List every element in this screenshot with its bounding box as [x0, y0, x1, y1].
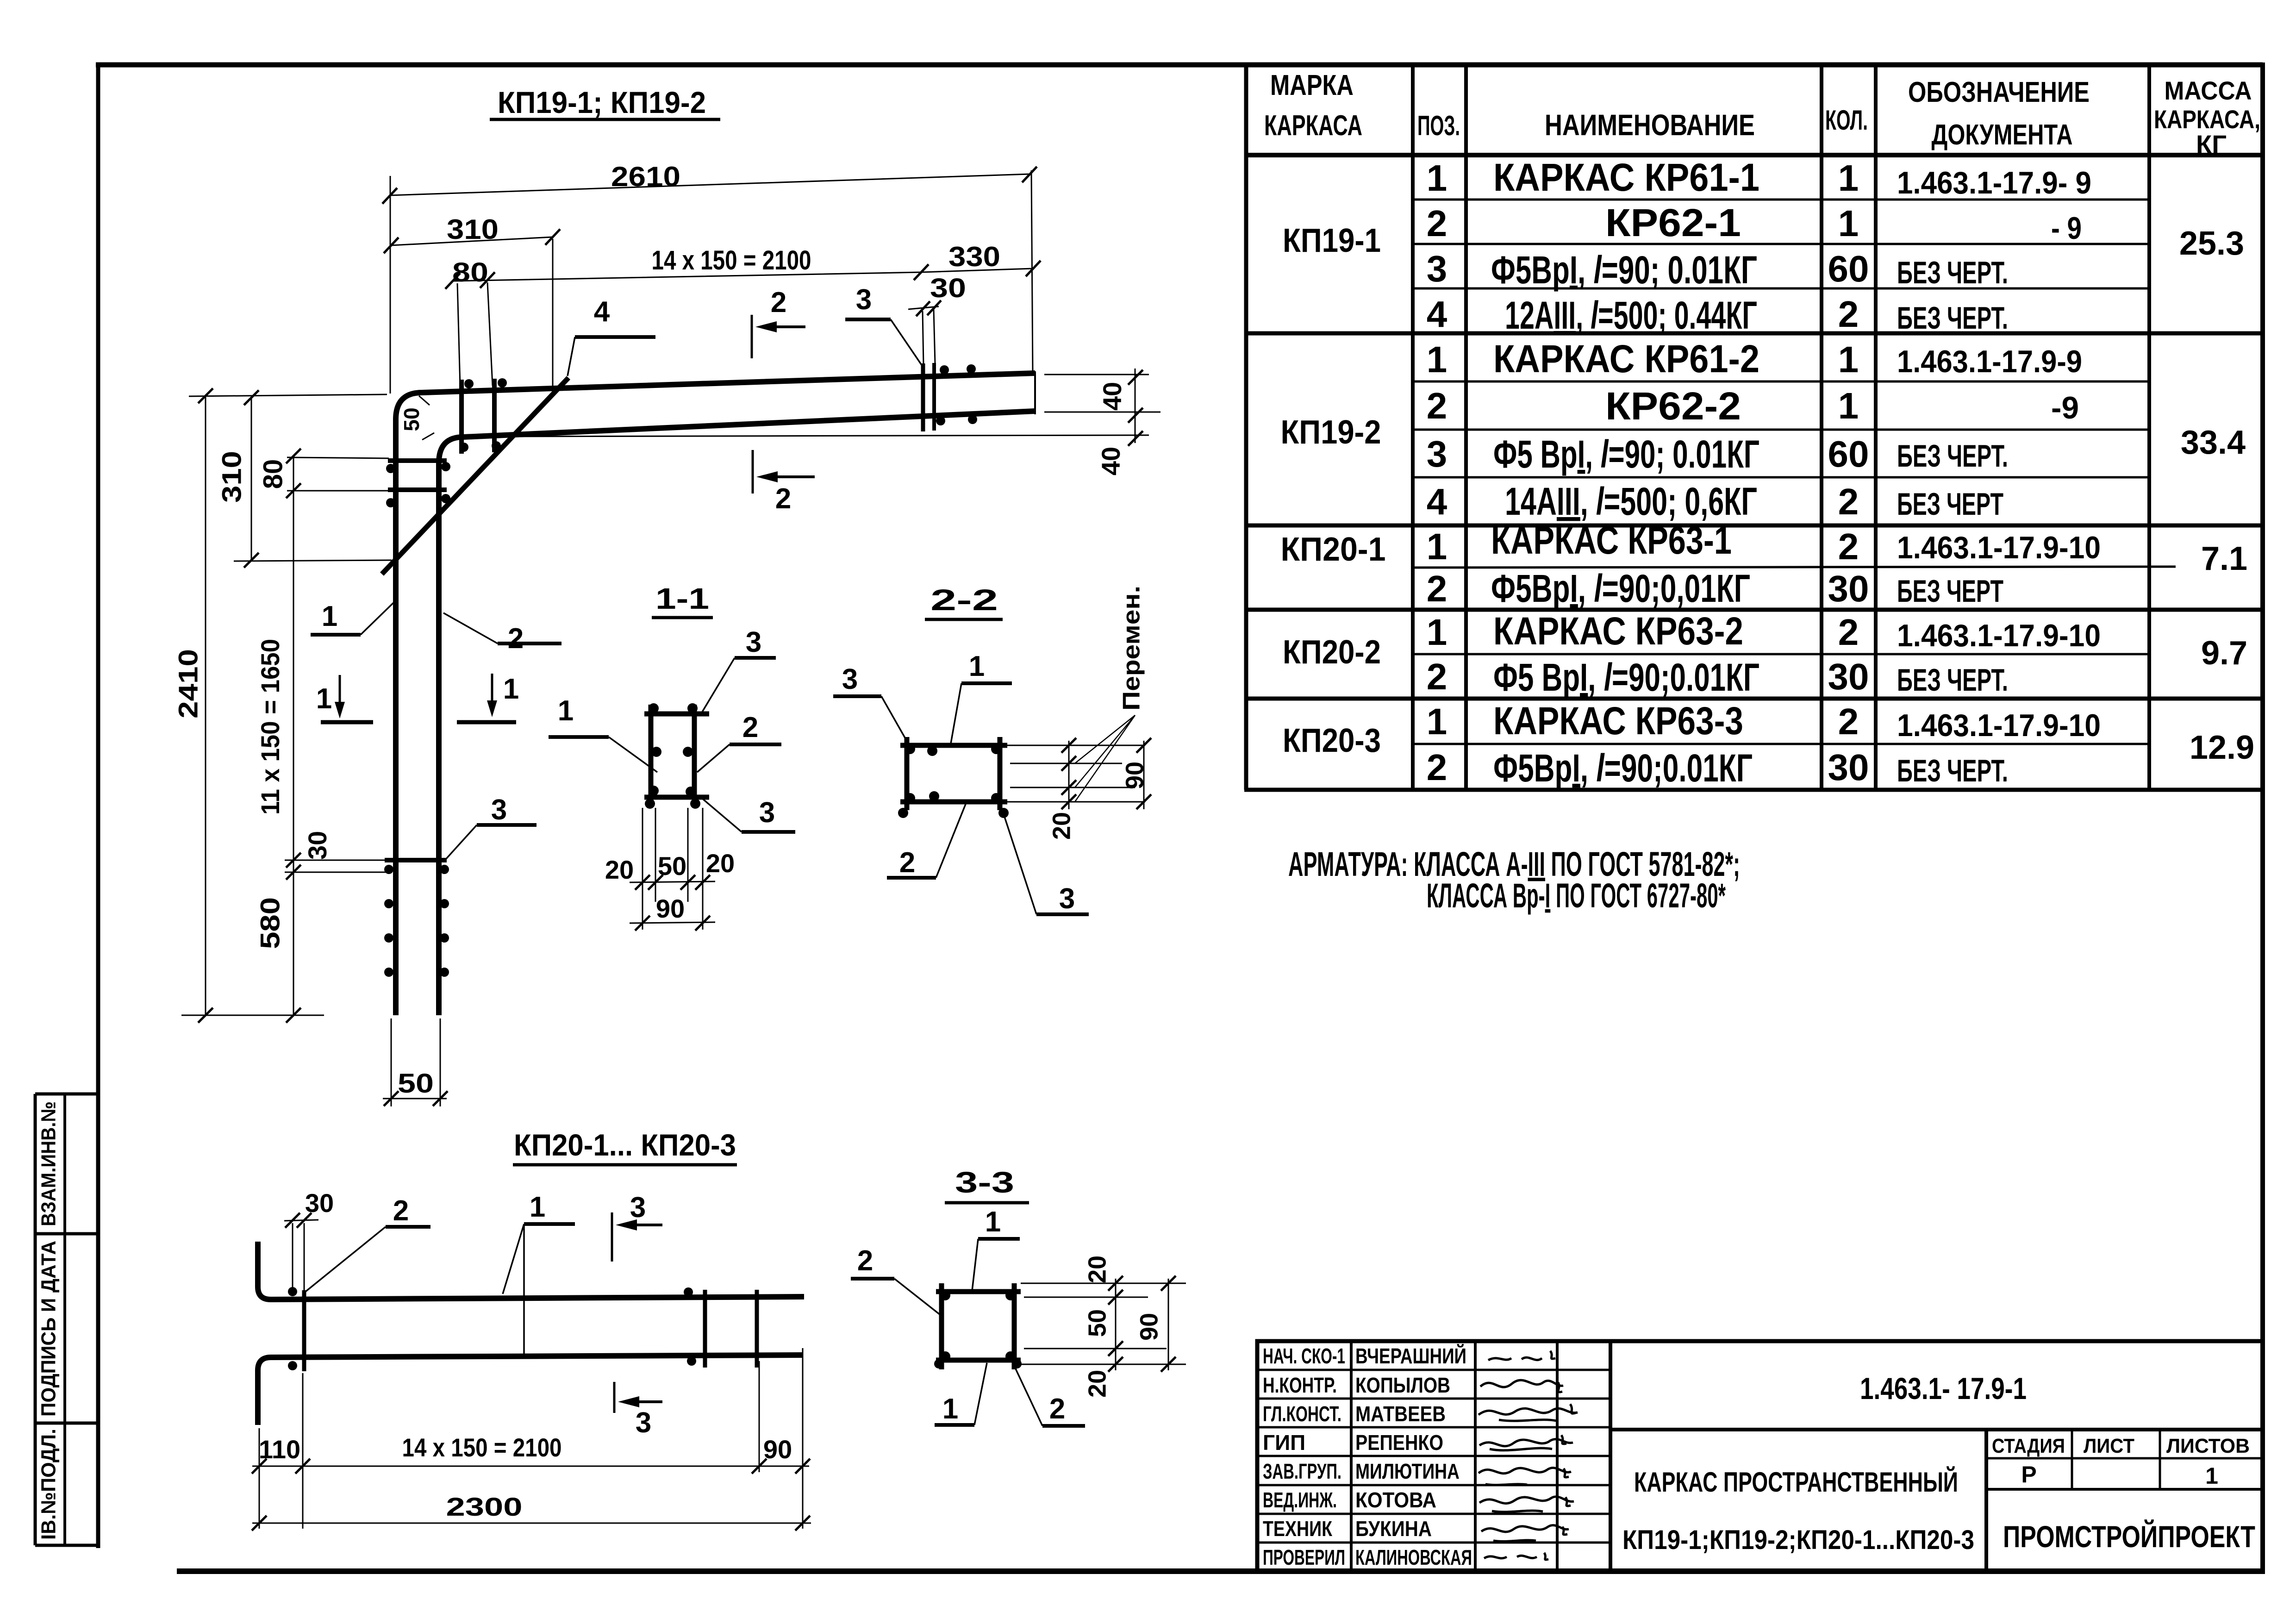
svg-text:1: 1	[1838, 339, 1859, 380]
svg-text:12.9: 12.9	[2190, 729, 2254, 766]
svg-text:КП19-1; КП19-2: КП19-1; КП19-2	[498, 85, 706, 119]
svg-text:3: 3	[1427, 433, 1447, 475]
svg-text:310: 310	[217, 451, 247, 503]
svg-text:30: 30	[1828, 747, 1869, 788]
svg-text:1: 1	[558, 695, 574, 727]
svg-text:2300: 2300	[446, 1492, 523, 1521]
svg-text:МИЛЮТИНА: МИЛЮТИНА	[1355, 1459, 1460, 1483]
svg-text:1: 1	[1427, 612, 1447, 653]
svg-text:2: 2	[1838, 294, 1859, 335]
section 1-1 dimensions 20 50 20 / 90	[605, 808, 735, 931]
svg-text:ТЕХНИК: ТЕХНИК	[1263, 1517, 1333, 1541]
svg-text:1.463.1-17.9-10: 1.463.1-17.9-10	[1897, 530, 2101, 565]
table name rows block КП19-1	[1491, 156, 1759, 337]
svg-text:КАЛИНОВСКАЯ: КАЛИНОВСКАЯ	[1355, 1545, 1472, 1569]
left dimension line 310	[217, 390, 259, 568]
svg-text:60: 60	[1828, 248, 1869, 289]
svg-text:90: 90	[763, 1435, 792, 1464]
svg-text:2: 2	[1427, 385, 1447, 426]
svg-text:КП19-1;КП19-2;КП20-1...КП20-3: КП19-1;КП19-2;КП20-1...КП20-3	[1622, 1525, 1974, 1555]
side strip boxes	[35, 1094, 100, 1545]
svg-text:30: 30	[1828, 568, 1869, 609]
svg-text:2: 2	[857, 1245, 873, 1277]
svg-text:1: 1	[1427, 157, 1447, 199]
svg-text:2410: 2410	[173, 649, 203, 718]
svg-text:1.463.1-17.9-10: 1.463.1-17.9-10	[1897, 618, 2101, 653]
section 1-1 leader 3 top	[700, 626, 776, 716]
section 2-2 leader 2 bottom left	[887, 804, 966, 879]
svg-text:ВЧЕРАШНИЙ: ВЧЕРАШНИЙ	[1355, 1344, 1466, 1368]
svg-text:ЛИСТ: ЛИСТ	[2084, 1435, 2134, 1457]
svg-text:КП20-2: КП20-2	[1283, 634, 1381, 671]
label 50 corner radius	[399, 396, 434, 440]
svg-text:2: 2	[1838, 481, 1859, 522]
title block role labels	[1263, 1344, 1345, 1569]
svg-text:КЛАССА Вр-I ПО ГОСТ 6727-80*: КЛАССА Вр-I ПО ГОСТ 6727-80*	[1427, 876, 1726, 915]
svg-text:ПОДПИСЬ И ДАТА: ПОДПИСЬ И ДАТА	[37, 1241, 60, 1417]
svg-text:2: 2	[1838, 526, 1859, 567]
section 1-1 stirrup rect	[644, 705, 709, 806]
svg-text:1.463.1-17.9-9: 1.463.1-17.9-9	[1897, 344, 2082, 379]
svg-text:30: 30	[303, 831, 332, 860]
svg-text:КОЛ.: КОЛ.	[1825, 105, 1868, 136]
weld dots bottom cage	[288, 1287, 696, 1370]
svg-text:3: 3	[491, 794, 507, 826]
section 1-1 leader 2	[697, 712, 781, 772]
svg-text:2: 2	[1427, 203, 1447, 244]
section 3-3 bar dots	[934, 1290, 1022, 1368]
left dimension line 2410	[173, 388, 213, 1023]
section 2-2 dimensions 20 / 90	[1004, 738, 1151, 840]
svg-text:20: 20	[605, 855, 634, 884]
svg-text:1: 1	[969, 650, 985, 682]
rebar top chord with hook поз.1	[258, 1242, 804, 1299]
svg-text:50: 50	[658, 851, 686, 881]
svg-text:Перемен.: Перемен.	[1118, 586, 1145, 711]
svg-text:БЕЗ ЧЕРТ.: БЕЗ ЧЕРТ.	[1897, 662, 2008, 698]
section 3-3 title	[945, 1166, 1029, 1203]
table mark КП19-1	[1283, 222, 1381, 259]
svg-text:ЗАВ.ГРУП.: ЗАВ.ГРУП.	[1263, 1459, 1341, 1483]
svg-text:ПРОВЕРИЛ: ПРОВЕРИЛ	[1263, 1545, 1345, 1569]
svg-text:50: 50	[398, 1068, 434, 1099]
section 2-2 leader 3 top left	[833, 663, 908, 743]
svg-text:1: 1	[1838, 385, 1859, 426]
svg-text:ЛИСТОВ: ЛИСТОВ	[2166, 1435, 2250, 1457]
svg-text:2: 2	[1427, 568, 1447, 609]
side strip label ПОДПИСЬ И ДАТА	[37, 1241, 60, 1417]
svg-text:2: 2	[899, 847, 915, 879]
section mark 1 left	[316, 675, 373, 722]
svg-text:КП20-1: КП20-1	[1281, 531, 1386, 568]
dimension 40 40 right end	[468, 369, 1160, 475]
svg-text:3: 3	[630, 1192, 646, 1224]
svg-text:1.463.1-17.9- 9: 1.463.1-17.9- 9	[1897, 165, 2091, 200]
svg-text:КАРКАС ПРОСТРАНСТВЕННЫЙ: КАРКАС ПРОСТРАНСТВЕННЫЙ	[1634, 1467, 1958, 1498]
note арматура line 2	[1427, 876, 1726, 915]
svg-text:1: 1	[1838, 203, 1859, 244]
section 1-1 bar dots	[645, 703, 700, 809]
leader 1 column	[311, 600, 393, 635]
leader 3 column wire	[446, 794, 537, 859]
title block names	[1355, 1344, 1472, 1569]
table mass column	[2179, 225, 2254, 766]
svg-text:1: 1	[1427, 339, 1447, 380]
svg-text:IВ.№ПОДЛ.: IВ.№ПОДЛ.	[37, 1429, 60, 1540]
svg-text:2: 2	[775, 483, 791, 515]
svg-text:ГЛ.КОНСТ.: ГЛ.КОНСТ.	[1263, 1402, 1341, 1426]
table mark КП20-2	[1283, 634, 1381, 671]
svg-text:Ф5 ВрI, l=90;0.01КГ: Ф5 ВрI, l=90;0.01КГ	[1493, 656, 1759, 699]
svg-text:БУКИНА: БУКИНА	[1355, 1517, 1432, 1541]
cross wire поз.2 right a	[703, 1290, 707, 1368]
svg-text:3: 3	[746, 626, 761, 658]
svg-text:90: 90	[1135, 1313, 1163, 1341]
svg-text:1: 1	[503, 673, 519, 705]
weld dots column hooks	[384, 865, 449, 977]
svg-text:7.1: 7.1	[2201, 540, 2247, 577]
svg-text:МАССА: МАССА	[2165, 76, 2252, 105]
section mark 2 top	[752, 287, 805, 358]
svg-text:2: 2	[1427, 747, 1447, 788]
svg-text:РЕПЕНКО: РЕПЕНКО	[1355, 1430, 1443, 1455]
svg-text:30: 30	[930, 273, 966, 303]
svg-text:30: 30	[1828, 656, 1869, 697]
table header КОЛ.	[1825, 105, 1868, 136]
svg-text:Ф5ВрI, l=90;0,01КГ: Ф5ВрI, l=90;0,01КГ	[1491, 567, 1750, 610]
leader 3 arm	[845, 284, 922, 366]
diagonal bar поз.4	[382, 378, 568, 574]
section mark 2 bottom	[753, 450, 815, 515]
frame border right	[2260, 62, 2265, 1574]
svg-text:КР62-2: КР62-2	[1605, 384, 1741, 428]
dimension 30 top right	[908, 273, 966, 365]
svg-text:Р: Р	[2021, 1462, 2036, 1487]
section 2-2 leader 3 bottom right	[1001, 806, 1089, 915]
svg-text:2: 2	[1049, 1393, 1065, 1425]
svg-text:1: 1	[1838, 157, 1859, 199]
section 3-3 leader 1 top	[972, 1206, 1020, 1291]
svg-text:3: 3	[1427, 248, 1447, 289]
table name rows block КП20-1	[1491, 518, 1750, 610]
svg-text:4: 4	[594, 296, 610, 328]
svg-text:КАРКАС КР63-2: КАРКАС КР63-2	[1493, 609, 1743, 653]
dimension 2610	[382, 161, 1037, 394]
svg-text:ГИП: ГИП	[1263, 1430, 1305, 1455]
bottom dimension 50 column	[383, 1018, 448, 1106]
svg-text:НАИМЕНОВАНИЕ: НАИМЕНОВАНИЕ	[1545, 108, 1755, 142]
svg-text:2-2: 2-2	[930, 583, 998, 617]
node Перемен. label	[1075, 586, 1145, 802]
table mark КП19-2	[1281, 414, 1381, 451]
side strip label ИНВ.№ПОДЛ.	[37, 1429, 60, 1540]
svg-text:КАРКАС КР61-2: КАРКАС КР61-2	[1493, 337, 1759, 381]
side strip label ВЗАМ.ИНВ.№	[37, 1101, 60, 1226]
svg-text:- 9: - 9	[2051, 211, 2082, 246]
svg-text:ПРОМСТРОЙПРОЕКТ: ПРОМСТРОЙПРОЕКТ	[2003, 1519, 2255, 1554]
arm end line	[1034, 371, 1036, 414]
table header МАССА КАРКАСА, КГ	[2154, 76, 2260, 159]
svg-text:ПОЗ.: ПОЗ.	[1417, 110, 1460, 141]
svg-text:КП20-3: КП20-3	[1283, 722, 1381, 759]
rebar inner bent bar поз.2	[439, 411, 1035, 1015]
svg-text:-9: -9	[2051, 390, 2079, 425]
svg-text:1-1: 1-1	[655, 582, 709, 615]
svg-text:2: 2	[393, 1195, 409, 1227]
table name rows block КП20-3	[1493, 699, 1753, 790]
svg-text:20: 20	[1083, 1255, 1111, 1283]
svg-text:110: 110	[259, 1435, 300, 1464]
section 1-1 title	[652, 582, 713, 618]
svg-text:80: 80	[452, 257, 488, 287]
svg-text:ВЗАМ.ИНВ.№: ВЗАМ.ИНВ.№	[37, 1101, 60, 1226]
svg-text:КОПЫЛОВ: КОПЫЛОВ	[1355, 1373, 1450, 1397]
svg-text:1.463.1-17.9-10: 1.463.1-17.9-10	[1897, 708, 2101, 743]
svg-text:3: 3	[856, 284, 872, 316]
section 3-3 leader 2 bottom right	[1013, 1363, 1085, 1426]
rebar bottom chord with hook поз.1	[258, 1355, 803, 1425]
svg-text:3: 3	[1059, 883, 1075, 915]
spec table grid	[1244, 62, 2263, 790]
title block grid	[1257, 1341, 2263, 1571]
svg-text:СТАДИЯ: СТАДИЯ	[1992, 1435, 2065, 1457]
svg-text:1: 1	[530, 1191, 545, 1223]
section 3-3 dimensions 20 50 20 / 90	[1021, 1255, 1186, 1398]
cross wire поз.3 column b	[388, 487, 447, 492]
svg-text:2: 2	[742, 712, 758, 743]
section 2-2 leader 1 top	[951, 650, 1012, 743]
table mark КП20-1	[1281, 531, 1386, 568]
svg-text:Ф5ВрI, l=90;0.01КГ: Ф5ВрI, l=90;0.01КГ	[1493, 746, 1753, 790]
svg-text:1: 1	[942, 1393, 958, 1425]
frame border top	[96, 62, 2263, 68]
svg-text:МАТВЕЕВ: МАТВЕЕВ	[1355, 1402, 1446, 1426]
drawing A title КП19-1; КП19-2	[490, 85, 720, 119]
section 1-1 leader 3 bottom	[702, 797, 795, 832]
svg-text:2610: 2610	[611, 161, 680, 192]
svg-text:1: 1	[1427, 701, 1447, 742]
svg-text:50: 50	[1083, 1309, 1111, 1337]
svg-text:50: 50	[399, 407, 424, 431]
frame border bottom	[177, 1568, 2265, 1574]
svg-text:2: 2	[508, 623, 524, 655]
svg-text:3: 3	[759, 797, 775, 829]
dimension 310 top	[384, 214, 560, 389]
section 3-3 stirrup rect	[936, 1283, 1021, 1369]
svg-text:2: 2	[1838, 612, 1859, 653]
svg-text:БЕЗ ЧЕРТ.: БЕЗ ЧЕРТ.	[1897, 438, 2008, 474]
section 2-2 title	[925, 583, 1003, 619]
leader 2 bottom cage	[306, 1195, 430, 1292]
svg-text:Н.КОНТР.: Н.КОНТР.	[1263, 1373, 1337, 1397]
leader 1 bottom cage	[503, 1191, 575, 1354]
leader 4	[568, 296, 655, 376]
title block name КП19-1;КП19-2;КП20-1...КП20-3	[1622, 1525, 1974, 1555]
svg-text:НАЧ. СКО-1: НАЧ. СКО-1	[1263, 1344, 1345, 1368]
svg-text:25.3: 25.3	[2179, 225, 2244, 262]
svg-text:90: 90	[656, 894, 685, 923]
svg-text:БЕЗ ЧЕРТ: БЕЗ ЧЕРТ	[1897, 574, 2003, 609]
section mark 3 top	[612, 1192, 662, 1262]
table header НАИМЕНОВАНИЕ	[1545, 108, 1755, 142]
title block name КАРКАС ПРОСТРАНСТВЕННЫЙ	[1634, 1467, 1958, 1498]
svg-text:40: 40	[1096, 447, 1125, 475]
svg-text:БЕЗ ЧЕРТ: БЕЗ ЧЕРТ	[1897, 487, 2003, 522]
table header ОБОЗНАЧЕНИЕ ДОКУМЕНТА	[1908, 76, 2090, 151]
svg-text:2: 2	[1427, 656, 1447, 697]
bottom cage dimension line 110 / 14x150=2100 / 90	[252, 1348, 810, 1529]
svg-text:3: 3	[636, 1407, 651, 1439]
svg-text:11 x 150 = 1650: 11 x 150 = 1650	[256, 639, 285, 815]
dimension 80 + 14x150=2100 + 330 line	[445, 241, 1041, 387]
svg-text:9.7: 9.7	[2201, 635, 2247, 672]
svg-text:1: 1	[985, 1206, 1001, 1238]
drawing B title КП20-1...КП20-3	[513, 1128, 737, 1165]
svg-text:30: 30	[305, 1188, 334, 1218]
table header ПОЗ.	[1417, 110, 1460, 141]
svg-text:1: 1	[322, 600, 337, 632]
cross wire поз.3 right end a	[921, 363, 925, 431]
svg-text:40: 40	[1098, 382, 1127, 411]
note арматура line 1	[1288, 845, 1740, 883]
svg-text:14АIII, l=500; 0,6КГ: 14АIII, l=500; 0,6КГ	[1505, 480, 1757, 523]
leader 2 column	[443, 613, 562, 655]
section mark 1 right	[457, 673, 519, 722]
svg-text:ДОКУМЕНТА: ДОКУМЕНТА	[1932, 119, 2073, 151]
weld dots arm right end	[936, 364, 977, 425]
svg-text:БЕЗ ЧЕРТ.: БЕЗ ЧЕРТ.	[1897, 753, 2008, 788]
svg-text:1: 1	[2205, 1463, 2218, 1489]
dimension 30 hook	[284, 1188, 334, 1290]
svg-text:14 x 150 = 2100: 14 x 150 = 2100	[652, 245, 811, 275]
svg-text:33.4: 33.4	[2181, 424, 2246, 461]
left dimension line 80 / 11x150=1650 / 580	[255, 449, 331, 1023]
svg-text:1: 1	[1427, 526, 1447, 567]
cross wire поз.3 corner b	[492, 379, 497, 452]
table pos column digits	[1427, 157, 1447, 788]
svg-text:60: 60	[1828, 433, 1869, 475]
svg-text:ВЕД.ИНЖ.: ВЕД.ИНЖ.	[1263, 1488, 1337, 1512]
svg-text:КАРКАСА: КАРКАСА	[1264, 110, 1362, 142]
table header МАРКА КАРКАСА	[1264, 69, 1362, 142]
cross wire поз.3 right end b	[932, 363, 936, 431]
section mark 3 bottom	[614, 1382, 662, 1439]
table name rows block КП20-2	[1493, 609, 1759, 699]
svg-text:330: 330	[948, 241, 1000, 272]
section 2-2 bar dots	[898, 744, 1009, 818]
rebar outer bent bar поз.1	[396, 373, 1035, 1015]
svg-text:4: 4	[1427, 481, 1447, 522]
cross wire поз.3 corner a	[459, 380, 464, 454]
svg-text:310: 310	[447, 214, 499, 245]
svg-text:14 x 150 = 2100: 14 x 150 = 2100	[402, 1433, 562, 1462]
frame border left	[96, 62, 100, 1548]
svg-text:КАРКАС КР63-1: КАРКАС КР63-1	[1491, 518, 1732, 562]
title block doc number 1.463.1-17.9-1	[1860, 1371, 2027, 1405]
svg-text:80: 80	[258, 459, 288, 489]
cross wire поз.2 left	[302, 1290, 306, 1371]
cross wire поз.2 right b	[755, 1290, 759, 1368]
svg-text:1.463.1- 17.9-1: 1.463.1- 17.9-1	[1860, 1371, 2027, 1405]
title block ПРОМСТРОЙПРОЕКТ	[2003, 1519, 2255, 1554]
cross wire поз.3 column c	[385, 858, 447, 862]
section 3-3 leader 2 left	[851, 1245, 942, 1317]
svg-text:Ф5ВрI, l=90; 0.01КГ: Ф5ВрI, l=90; 0.01КГ	[1491, 248, 1757, 292]
svg-text:БЕЗ ЧЕРТ.: БЕЗ ЧЕРТ.	[1897, 300, 2008, 336]
svg-text:3: 3	[842, 663, 858, 695]
section 2-2 stirrup rect	[900, 737, 1007, 810]
bottom cage dimension 2300	[252, 1492, 811, 1530]
svg-text:ОБОЗНАЧЕНИЕ: ОБОЗНАЧЕНИЕ	[1908, 76, 2090, 108]
svg-text:20: 20	[1083, 1370, 1111, 1398]
svg-text:Ф5 ВрI, l=90; 0.01КГ: Ф5 ВрI, l=90; 0.01КГ	[1493, 432, 1759, 476]
table doc column	[1897, 165, 2101, 788]
section 3-3 leader 1 bottom	[935, 1363, 987, 1425]
svg-text:1: 1	[316, 683, 332, 715]
title block СТАДИЯ ЛИСТ ЛИСТОВ	[1992, 1435, 2250, 1489]
svg-text:КОТОВА: КОТОВА	[1355, 1488, 1436, 1512]
svg-text:МАРКА: МАРКА	[1270, 69, 1354, 101]
svg-text:КП19-1: КП19-1	[1283, 222, 1381, 259]
table kol column digits	[1828, 157, 1869, 788]
svg-text:4: 4	[1427, 294, 1447, 335]
title block signatures	[1479, 1351, 1578, 1560]
svg-text:БЕЗ ЧЕРТ.: БЕЗ ЧЕРТ.	[1897, 255, 2008, 290]
svg-text:КАРКАС КР61-1: КАРКАС КР61-1	[1493, 156, 1759, 199]
svg-text:90: 90	[1121, 762, 1148, 789]
left extension lines	[181, 394, 392, 1015]
cross wire поз.3 column a	[388, 458, 447, 463]
svg-text:20: 20	[706, 849, 735, 878]
section 1-1 leader 1	[549, 695, 657, 772]
svg-text:2: 2	[1838, 701, 1859, 742]
svg-text:3-3: 3-3	[955, 1166, 1014, 1199]
svg-text:КП20-1... КП20-3: КП20-1... КП20-3	[514, 1128, 736, 1162]
svg-text:2: 2	[771, 287, 786, 319]
svg-text:КП19-2: КП19-2	[1281, 414, 1381, 451]
weld dots arm corner	[386, 378, 507, 507]
svg-text:20: 20	[1048, 812, 1075, 840]
svg-text:12АIII, l=500; 0.44КГ: 12АIII, l=500; 0.44КГ	[1505, 294, 1757, 337]
svg-text:КГ: КГ	[2196, 130, 2227, 159]
table name rows block КП19-2	[1493, 337, 1759, 523]
table mark КП20-3	[1283, 722, 1381, 759]
svg-text:КАРКАС КР63-3: КАРКАС КР63-3	[1493, 699, 1743, 743]
svg-text:КР62-1: КР62-1	[1605, 201, 1741, 244]
svg-text:580: 580	[255, 897, 285, 949]
